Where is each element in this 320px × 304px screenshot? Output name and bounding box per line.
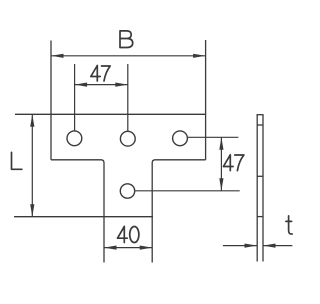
arrow 47top left bbox=[75, 83, 88, 87]
plate left step with fillet bbox=[51, 160, 104, 263]
arrow 47top right bbox=[115, 83, 128, 87]
label 40: digit 0 bbox=[130, 227, 139, 243]
plate right edge (with B extension up) bbox=[205, 40, 207, 160]
dimension 47 top: extension lines down to holes bbox=[74, 64, 76, 131]
dimension 47 right: extension lines bbox=[188, 136, 238, 138]
label 47 (top): digit 7 bbox=[102, 66, 111, 81]
label B bbox=[120, 31, 133, 48]
dimension B line bbox=[51, 55, 206, 57]
side view tick 2 bbox=[257, 175, 263, 177]
side view top cap bbox=[257, 114, 264, 116]
text: CAD style stroked glyphs bbox=[12, 31, 293, 243]
hole 3 bbox=[173, 131, 188, 146]
arrow t left (points right) bbox=[245, 244, 258, 248]
label L bbox=[12, 152, 22, 169]
plate left edge (with B extension up) bbox=[50, 41, 52, 160]
label t bbox=[286, 216, 292, 234]
plate bottom edge (with L extension to left) bbox=[14, 216, 153, 218]
arrow B right bbox=[193, 54, 206, 58]
arrow 47right up bbox=[219, 137, 223, 150]
side view left edge bbox=[256, 115, 258, 262]
label 47 (right): digit 7 bbox=[235, 155, 244, 171]
plate top edge (with L extension to left) bbox=[15, 113, 206, 115]
label 40: digit 4 bbox=[118, 226, 128, 242]
dimension L line bbox=[31, 114, 33, 216]
dimension 47 right line bbox=[220, 137, 222, 191]
plate right step with fillet bbox=[152, 160, 205, 263]
label 47 (top): digit 4 bbox=[91, 66, 100, 82]
dimension t right leader bbox=[263, 245, 292, 247]
arrow 40 right bbox=[140, 246, 153, 250]
arrow 40 left bbox=[104, 246, 117, 250]
dimension 40 line bbox=[104, 247, 152, 249]
side view tick 1 bbox=[257, 124, 263, 126]
arrow L down bbox=[30, 204, 34, 217]
hole 2 bbox=[120, 131, 135, 146]
hole 4 bbox=[120, 184, 134, 198]
hole 1 bbox=[67, 131, 82, 146]
side view tick 3 bbox=[257, 216, 263, 218]
dimension 47 top line bbox=[75, 84, 128, 86]
arrow 47right down bbox=[219, 178, 223, 191]
dimension t left leader bbox=[223, 245, 257, 247]
arrow t right (points left) bbox=[263, 244, 276, 248]
arrow B left bbox=[51, 54, 64, 58]
arrow L up bbox=[30, 114, 34, 127]
side view right edge bbox=[262, 115, 264, 262]
label 47 (right): digit 4 bbox=[223, 155, 233, 171]
